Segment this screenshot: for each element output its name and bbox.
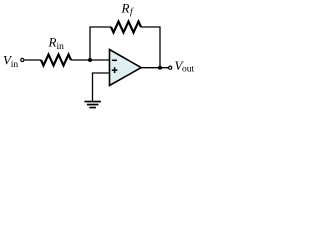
junction output node [158,66,162,70]
svg-text:R: R [121,1,130,16]
resistor Rf [111,22,141,33]
wire noninverting input [93,73,111,102]
wire output [141,67,169,69]
label Rf [121,1,135,18]
ground [84,101,101,109]
wire feedback down [141,27,160,68]
label Rin [48,35,65,52]
resistor Rin [41,55,71,66]
pin plus [112,67,118,73]
node Vout label [175,58,195,75]
op-amp U1 [110,50,142,86]
junction node A [88,58,92,62]
svg-text:out: out [182,64,195,74]
svg-text:f: f [130,7,134,18]
svg-text:R: R [48,35,57,50]
wire Rin to inverting input [71,59,110,61]
wire input [24,59,41,61]
terminal Vout [169,66,172,69]
svg-text:in: in [57,42,65,52]
pin minus [112,60,117,62]
svg-text:in: in [11,60,19,70]
wire feedback up [90,27,111,60]
node Vin label [3,53,18,70]
terminal Vin [21,58,24,61]
